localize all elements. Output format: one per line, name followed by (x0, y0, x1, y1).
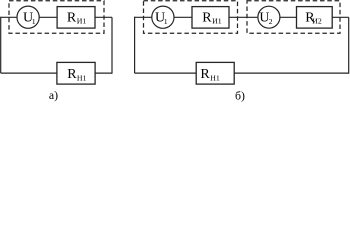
svg-text:И1: И1 (212, 17, 222, 26)
source U1 (circuit a) (17, 6, 39, 28)
wire: top right lead to R_I1 (circuit a) (95, 16, 112, 18)
load resistor R_H1 (circuit a) (57, 62, 95, 84)
svg-text:а): а) (49, 88, 58, 102)
wire: U2 to R_I2 (circuit b) (280, 16, 297, 18)
wire: bottom left to load (circuit a) (1, 72, 57, 74)
svg-text:Н1: Н1 (210, 73, 220, 82)
wire: left vertical side (circuit a) (0, 17, 2, 73)
wire: R_I1 to U2 (circuit b) (229, 16, 258, 18)
svg-text:1: 1 (32, 17, 36, 26)
svg-text:R: R (202, 10, 212, 25)
wire: top right lead to R_I2 (circuit b) (332, 16, 349, 18)
wire: load to bottom right corner (circuit a) (95, 72, 112, 74)
internal resistance R_I1 (circuit b) (192, 7, 229, 29)
wire: left lead from U1 to left edge (circuit b) (135, 16, 152, 18)
load resistor R_H1 (circuit b) (196, 62, 234, 84)
wire: right vertical side (circuit b) (348, 17, 350, 73)
wire: U1 to R_I1 (circuit a) (39, 16, 57, 18)
wire: bottom left to load (circuit b) (135, 72, 197, 74)
svg-text:И1: И1 (77, 17, 87, 26)
wire: left vertical side (circuit b) (134, 17, 136, 73)
source U2 (circuit b) (258, 6, 280, 28)
svg-text:И2: И2 (312, 17, 322, 26)
svg-text:R: R (67, 10, 77, 25)
svg-text:Н1: Н1 (77, 73, 87, 82)
wire: U1 to R_I1 (circuit b) (174, 16, 192, 18)
internal resistance R_I2 (circuit b) (297, 7, 333, 29)
dashed source boundary box (circuit a) (9, 1, 104, 34)
dashed source boundary box 2 (circuit b) (247, 1, 340, 34)
svg-text:2: 2 (269, 17, 273, 26)
wire: left lead from U1 to left edge (circuit a) (1, 16, 18, 18)
svg-text:R: R (200, 67, 210, 82)
internal resistance R_I1 (circuit a) (57, 7, 95, 29)
dashed source boundary box 1 (circuit b) (144, 1, 238, 34)
source U1 (circuit b) (152, 6, 174, 28)
svg-text:1: 1 (164, 17, 168, 26)
svg-text:б): б) (235, 88, 245, 102)
wire: load to bottom right corner (circuit b) (234, 72, 349, 74)
wire: right vertical side (circuit a) (111, 17, 113, 73)
svg-text:R: R (67, 67, 77, 82)
